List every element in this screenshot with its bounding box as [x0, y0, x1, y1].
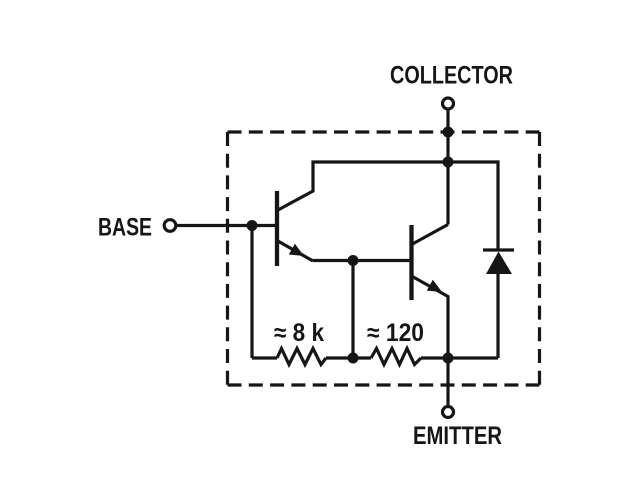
transistor Q1 emitter arrow — [289, 244, 304, 256]
wire collector lead vertical — [446, 110, 449, 225]
terminal COLLECTOR — [443, 98, 454, 109]
transistor Q2 base bar — [409, 225, 413, 300]
package outline dashed box — [228, 132, 540, 385]
node R1 R2 junction — [348, 353, 359, 364]
svg-text:≈ 120: ≈ 120 — [367, 319, 424, 347]
transistor Q1 emitter lead — [277, 241, 313, 262]
terminal EMITTER — [443, 407, 454, 418]
transistor Q2 emitter lead — [412, 276, 449, 358]
wire bottom rail R1 to R2 — [326, 356, 371, 359]
diode D1 cathode bar — [483, 248, 514, 251]
node collector package boundary — [443, 127, 454, 138]
resistor R2 — [371, 349, 421, 365]
wire base lead — [177, 224, 277, 227]
node emitter junction — [443, 353, 454, 364]
diode D1 triangle — [486, 252, 512, 275]
svg-text:COLLECTOR: COLLECTOR — [390, 62, 513, 90]
resistor R1 — [277, 349, 326, 365]
wire Q1 emitter junction to R2 — [351, 261, 354, 359]
terminal BASE — [164, 220, 176, 232]
transistor Q1 collector lead — [277, 162, 448, 211]
svg-text:EMITTER: EMITTER — [413, 422, 502, 450]
wire bottom rail left — [252, 356, 277, 359]
wire base junction to R1 — [250, 226, 253, 359]
wire bottom rail R2 to diode — [421, 356, 498, 359]
node Q1 emitter junction — [348, 255, 359, 266]
svg-text:BASE: BASE — [98, 214, 152, 242]
wire diode anode down — [496, 274, 499, 358]
wire emitter lead — [446, 358, 449, 407]
node base junction — [247, 220, 258, 231]
svg-text:≈ 8 k: ≈ 8 k — [274, 319, 324, 347]
wire collector to diode cathode — [448, 162, 498, 250]
transistor Q1 base bar — [275, 191, 279, 266]
transistor Q2 collector lead — [412, 225, 449, 245]
transistor Q2 emitter arrow — [427, 280, 442, 292]
wire Q1 emitter to Q2 base — [313, 259, 412, 262]
node collector tie — [443, 157, 454, 168]
